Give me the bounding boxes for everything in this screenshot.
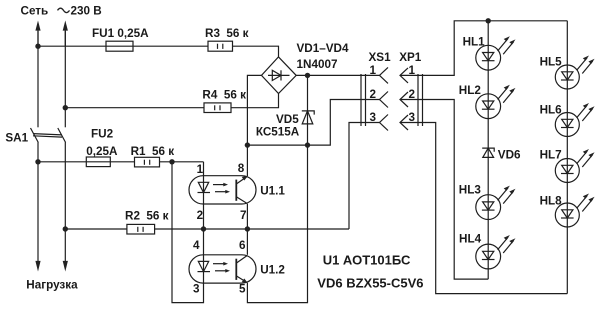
XS1 contact 1 bbox=[380, 67, 389, 83]
svg-text:1: 1 bbox=[370, 64, 377, 77]
svg-text:HL8: HL8 bbox=[540, 195, 563, 208]
node R2 tee bbox=[63, 226, 68, 231]
wire pin5 to rail bbox=[247, 145, 307, 303]
node bridge plus bbox=[305, 73, 310, 78]
XP1 contact 3 bbox=[400, 115, 408, 130]
LED HL4 bbox=[476, 235, 516, 269]
wire R4 row y=107.7 bbox=[65, 94, 278, 108]
svg-text:R2 56 к: R2 56 к bbox=[125, 210, 169, 223]
label ~ bbox=[58, 8, 70, 12]
node pin2-pin4 bbox=[201, 226, 206, 231]
svg-text:VD6: VD6 bbox=[498, 148, 521, 161]
wire bridge plus to connector row1 bbox=[296, 74, 379, 76]
node R1 out bbox=[169, 159, 174, 164]
svg-text:FU2: FU2 bbox=[91, 127, 114, 140]
connector XP1 body bbox=[418, 74, 423, 126]
svg-text:2: 2 bbox=[197, 209, 204, 222]
svg-text:VD5: VD5 bbox=[276, 113, 299, 126]
arrow load down left bbox=[35, 261, 40, 272]
LED HL6 bbox=[555, 103, 594, 137]
wire row2 right to chainA bottom bbox=[400, 100, 488, 280]
optocoupler U1.1 bbox=[189, 176, 256, 204]
svg-text:8: 8 bbox=[238, 162, 245, 175]
fuse FU1 bbox=[106, 41, 133, 51]
svg-text:HL2: HL2 bbox=[459, 84, 482, 97]
svg-text:5: 5 bbox=[239, 283, 246, 296]
svg-text:HL5: HL5 bbox=[540, 56, 563, 69]
wire VD5 branch vertical bbox=[307, 75, 309, 145]
svg-text:Сеть: Сеть bbox=[21, 5, 49, 18]
XP1 contact 2 bbox=[400, 92, 408, 107]
node top-left junction bbox=[35, 44, 40, 49]
switch SA1 bbox=[31, 128, 66, 143]
svg-text:2: 2 bbox=[409, 88, 416, 101]
arrow load down right bbox=[63, 261, 68, 272]
zener VD5 bbox=[302, 111, 314, 124]
svg-text:2: 2 bbox=[370, 88, 377, 101]
svg-text:Нагрузка: Нагрузка bbox=[26, 279, 78, 292]
svg-text:R4 56 к: R4 56 к bbox=[202, 88, 246, 101]
wire left mains vertical bottom bbox=[37, 142, 39, 261]
svg-text:3: 3 bbox=[193, 283, 200, 296]
wire minus rail y=145.1 bbox=[247, 100, 379, 146]
svg-text:4: 4 bbox=[193, 239, 200, 252]
wire loop to pin3 bbox=[172, 162, 204, 303]
svg-text:КС515А: КС515А bbox=[256, 126, 300, 139]
bridge VD1-VD4 bbox=[262, 57, 297, 94]
wire pin7 bbox=[246, 204, 248, 229]
wire R2 row y=229 bbox=[65, 228, 349, 230]
optocoupler U1.2 bbox=[189, 255, 256, 283]
wire bridge minus to pin8 bbox=[247, 75, 261, 176]
wire pin1 drop bbox=[203, 162, 205, 176]
svg-text:VD1–VD4: VD1–VD4 bbox=[297, 42, 349, 55]
LED HL8 bbox=[555, 194, 594, 228]
wire chain A vertical bbox=[487, 21, 489, 279]
wire right mains vertical top bbox=[64, 27, 66, 128]
svg-text:230 В: 230 В bbox=[71, 5, 102, 18]
svg-text:HL7: HL7 bbox=[540, 149, 562, 162]
wire chain B vertical bbox=[566, 21, 568, 294]
wire FU2-R1 row y=161.8 bbox=[38, 161, 204, 163]
svg-text:1: 1 bbox=[197, 163, 204, 176]
svg-text:HL3: HL3 bbox=[459, 183, 482, 196]
LED HL2 bbox=[476, 85, 516, 119]
svg-text:VD6 BZX55-C5V6: VD6 BZX55-C5V6 bbox=[317, 275, 423, 290]
svg-text:FU1 0,25A: FU1 0,25A bbox=[92, 27, 149, 40]
svg-text:XS1: XS1 bbox=[369, 51, 392, 64]
svg-text:U1.1: U1.1 bbox=[260, 185, 285, 198]
svg-text:0,25A: 0,25A bbox=[86, 145, 118, 158]
svg-text:HL6: HL6 bbox=[540, 104, 563, 117]
node rail VD5 bbox=[305, 142, 310, 147]
svg-text:U1.2: U1.2 bbox=[260, 264, 285, 277]
wire pin2 bbox=[203, 204, 205, 229]
svg-text:XP1: XP1 bbox=[399, 51, 422, 64]
wire top rail y=46 bbox=[38, 46, 279, 57]
svg-text:U1 АОТ101БС: U1 АОТ101БС bbox=[323, 253, 411, 268]
LED HL3 bbox=[476, 186, 516, 220]
wire row3 left bbox=[349, 123, 380, 230]
wire row1 right to top rail bbox=[400, 21, 567, 76]
XS1 contact 3 bbox=[380, 115, 389, 131]
resistor R4 bbox=[204, 103, 231, 113]
LED HL7 bbox=[555, 149, 594, 183]
resistor R2 bbox=[127, 224, 155, 234]
connector XS1 body bbox=[361, 74, 366, 126]
svg-text:HL1: HL1 bbox=[463, 36, 486, 49]
node rail left bbox=[245, 142, 250, 147]
svg-text:7: 7 bbox=[240, 209, 247, 222]
wire left mains vertical top bbox=[37, 27, 39, 128]
svg-text:3: 3 bbox=[370, 111, 377, 124]
node FU2 tee bbox=[35, 159, 40, 164]
wire row3 right to chainB bottom bbox=[400, 123, 567, 294]
wire right mains vertical bottom bbox=[64, 142, 66, 261]
wire pin4 bbox=[203, 229, 205, 255]
arrow mains up left bbox=[35, 21, 40, 47]
svg-text:HL4: HL4 bbox=[459, 233, 482, 246]
zener VD6 chain bbox=[482, 148, 494, 157]
LED HL1 bbox=[476, 36, 516, 70]
resistor R3 bbox=[208, 41, 233, 51]
resistor R1 bbox=[135, 157, 160, 167]
node pin7-pin6 bbox=[245, 226, 250, 231]
wire pin6 bbox=[246, 229, 248, 255]
svg-text:1: 1 bbox=[409, 64, 416, 77]
svg-text:SA1: SA1 bbox=[5, 132, 28, 145]
node R4 tee bbox=[63, 105, 68, 110]
XS1 contact 2 bbox=[380, 92, 389, 108]
svg-text:6: 6 bbox=[239, 239, 246, 252]
LED HL5 bbox=[555, 56, 594, 90]
node top rail chainA bbox=[486, 18, 491, 23]
arrow mains up right bbox=[63, 21, 68, 47]
fuse FU2 bbox=[86, 157, 110, 167]
XP1 contact 1 bbox=[400, 68, 408, 83]
svg-text:3: 3 bbox=[409, 111, 416, 124]
svg-text:R3 56 к: R3 56 к bbox=[205, 27, 249, 40]
svg-text:R1 56 к: R1 56 к bbox=[131, 145, 175, 158]
svg-text:1N4007: 1N4007 bbox=[297, 58, 338, 71]
